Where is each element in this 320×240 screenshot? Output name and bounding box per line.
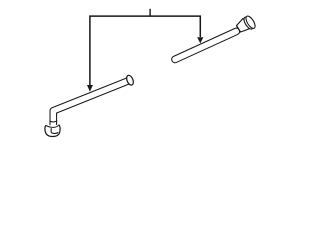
end fitting (flare and disc) xyxy=(235,14,257,35)
fitting start line xyxy=(236,25,240,32)
tube P2: straight fuel pipe, upper right xyxy=(175,14,257,59)
tube body fill xyxy=(175,31,236,59)
pipe body outline xyxy=(53,80,130,127)
cap rim arc (top of cap) xyxy=(46,125,59,127)
arrowhead left (to elbow pipe) xyxy=(87,85,93,92)
end cap nut outer xyxy=(45,125,60,137)
disc face (front ellipse) xyxy=(244,15,257,30)
inner J hook xyxy=(51,128,58,133)
pipe body fill xyxy=(53,80,130,127)
open end ellipse xyxy=(125,74,134,86)
label 1 (tick above bracket) xyxy=(149,9,150,16)
flare collar xyxy=(235,17,252,34)
arrowhead right (to straight tube) xyxy=(197,37,203,43)
disc rim (back ellipse) xyxy=(242,16,254,31)
tube P1: elbow pipe, lower left xyxy=(45,74,135,136)
tube body outline xyxy=(175,31,236,59)
ferrule band arc xyxy=(50,121,58,122)
callout bracket for item 1 xyxy=(90,16,200,85)
